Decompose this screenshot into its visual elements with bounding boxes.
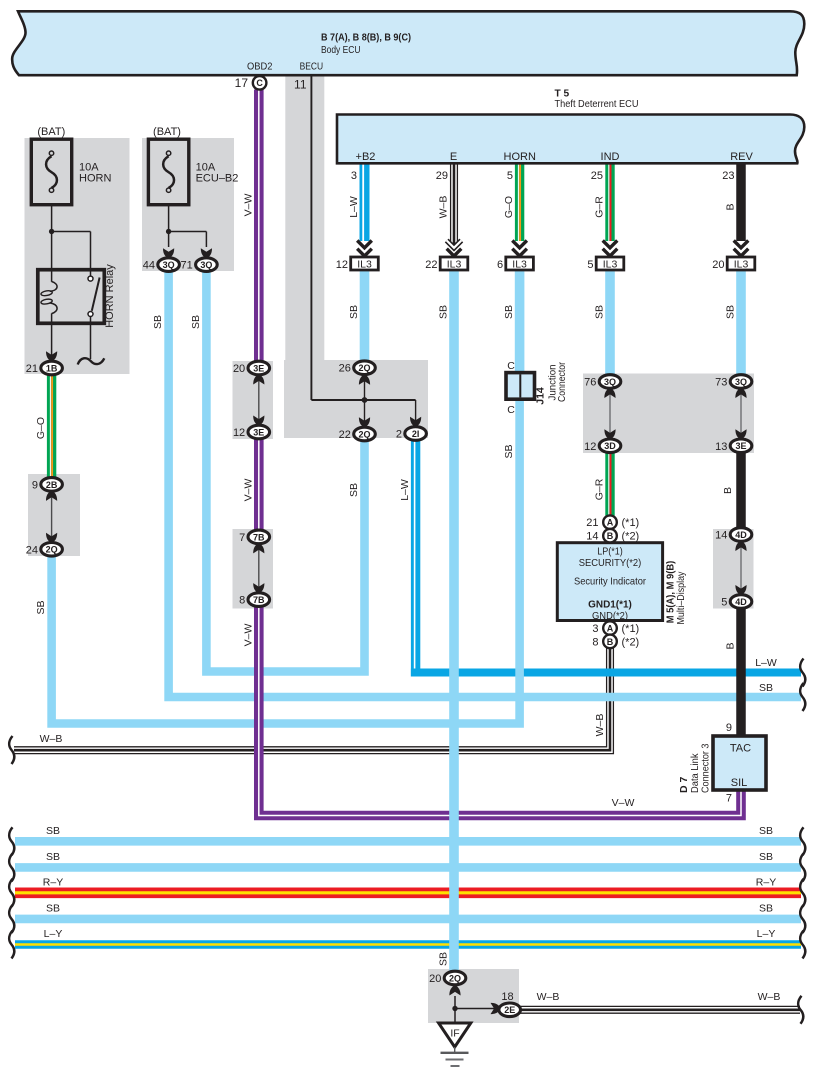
svg-text:Security Indicator: Security Indicator: [574, 576, 646, 588]
svg-text:HORN Relay: HORN Relay: [104, 264, 116, 328]
svg-text:IL3: IL3: [512, 259, 527, 271]
wire G-O relay 1B to 2B: [50, 375, 52, 479]
wire G-R 12-3D to indicator A: [609, 452, 611, 516]
security indicator box: [557, 543, 662, 621]
connector 22 2Q: [354, 427, 376, 441]
shade box ECU-B2 fuse: [142, 138, 234, 271]
arrow into 71-3Q: [201, 248, 212, 259]
link pair 3Q/3D: [609, 390, 611, 438]
svg-text:22: 22: [425, 259, 437, 271]
svg-text:(*1): (*1): [622, 623, 640, 635]
svg-text:SB: SB: [46, 851, 60, 863]
wire L-W horizontal to right edge: [411, 441, 420, 677]
svg-text:2B: 2B: [46, 480, 58, 490]
svg-text:SB: SB: [503, 305, 515, 319]
svg-text:2I: 2I: [412, 429, 420, 439]
svg-text:2Q: 2Q: [46, 545, 58, 555]
svg-text:(BAT): (BAT): [37, 126, 65, 138]
svg-text:44: 44: [143, 260, 155, 272]
svg-text:D 7: D 7: [678, 777, 690, 794]
svg-text:L–W: L–W: [348, 196, 360, 218]
svg-text:B: B: [607, 531, 614, 541]
link pair 7B/7B: [258, 545, 260, 592]
svg-text:7B: 7B: [253, 532, 265, 542]
svg-text:7: 7: [239, 532, 245, 544]
svg-text:29: 29: [436, 170, 448, 182]
svg-text:W–B: W–B: [438, 196, 450, 219]
wire ECU-B2 fuse split to 44/71: [166, 204, 206, 247]
svg-text:24: 24: [26, 544, 38, 556]
svg-text:2Q: 2Q: [449, 973, 461, 983]
svg-text:9: 9: [32, 479, 38, 491]
svg-text:3E: 3E: [253, 427, 264, 437]
svg-text:(*2): (*2): [622, 531, 640, 543]
svg-text:HORN: HORN: [504, 151, 536, 163]
svg-text:14: 14: [586, 531, 598, 543]
squiggle right W-B bottom: [798, 996, 803, 1024]
connector C OBD2: [253, 76, 267, 90]
connector 26 2Q: [354, 361, 376, 375]
shade box connector pair 4D: [713, 529, 754, 609]
svg-text:LP(*1): LP(*1): [597, 546, 623, 558]
squiggle right bus 3: [800, 879, 805, 907]
link pair 2B/2Q: [51, 492, 53, 541]
connector A 3 (*1): [603, 621, 617, 635]
svg-text:L–W: L–W: [399, 479, 411, 501]
svg-text:Connector 3: Connector 3: [699, 743, 711, 793]
svg-text:IL3: IL3: [603, 259, 618, 271]
wire B black 5-4D to TAC: [736, 608, 746, 737]
connector B 8 (*2): [603, 635, 617, 649]
svg-text:IND: IND: [601, 151, 620, 163]
svg-text:L–W: L–W: [755, 657, 777, 669]
svg-text:SB: SB: [503, 444, 515, 458]
svg-text:5: 5: [721, 597, 727, 609]
bus wire SB 2: [15, 863, 801, 872]
svg-text:3: 3: [351, 170, 357, 182]
svg-text:A: A: [607, 624, 614, 634]
wire SB below 12-IL3: [360, 268, 370, 362]
fuse 10A HORN: [31, 139, 71, 205]
link pair 3Q/3E right: [740, 390, 742, 438]
wire SB U-link 71-3Q to 22-2Q: [206, 270, 364, 672]
squiggle right bus 5: [800, 931, 805, 959]
svg-text:73: 73: [715, 377, 727, 389]
wire SB E column full drop: [449, 268, 459, 973]
svg-text:(BAT): (BAT): [153, 126, 181, 138]
svg-text:20: 20: [429, 973, 441, 985]
svg-text:3D: 3D: [604, 441, 616, 451]
Theft Deterrent ECU banner: [337, 115, 804, 164]
svg-text:SB: SB: [35, 600, 47, 614]
wire SB REV column: [736, 268, 746, 376]
connector A 21 (*1): [603, 515, 617, 529]
connector 12 3D: [599, 439, 621, 453]
shade box connector pair 2B/2Q: [28, 474, 80, 556]
wire B black 13-3E to 14-4D: [736, 449, 746, 529]
connector 20 3E: [248, 361, 270, 375]
fuse 10A ECU-B2: [148, 139, 188, 205]
shade box connector pair 3E: [233, 361, 274, 439]
svg-text:12: 12: [336, 259, 348, 271]
wire relay out to 21-1B: [51, 323, 53, 355]
connector 9 2B: [41, 478, 63, 492]
svg-text:GND(*2): GND(*2): [592, 610, 628, 622]
wire HORN fuse to relay: [49, 205, 91, 282]
svg-text:TAC: TAC: [730, 743, 751, 755]
svg-text:3: 3: [592, 623, 598, 635]
wire SB from 44-3Q to right edge: [169, 270, 801, 697]
svg-text:V–W: V–W: [242, 624, 254, 647]
connector IL3 pin 22: [425, 257, 468, 271]
wire W-B from E: [451, 164, 458, 247]
svg-text:B: B: [725, 642, 737, 649]
connector 13 3E: [730, 439, 752, 453]
connector IL3 pin 5: [587, 257, 623, 271]
squiggle left bus 4: [9, 905, 14, 933]
svg-text:SB: SB: [759, 851, 773, 863]
bus wire SB 3: [15, 915, 801, 924]
svg-text:C: C: [507, 404, 515, 416]
svg-text:SIL: SIL: [731, 777, 748, 789]
svg-text:2Q: 2Q: [358, 363, 370, 373]
svg-text:SB: SB: [348, 305, 360, 319]
connector 24 2Q: [41, 543, 63, 557]
svg-text:5: 5: [507, 170, 513, 182]
shade box ground 2Q/2E: [428, 969, 519, 1023]
svg-text:W–B: W–B: [594, 714, 606, 737]
connector IL3 pin 20: [712, 257, 755, 271]
svg-text:SB: SB: [152, 315, 164, 329]
connector 7 7B: [248, 530, 270, 544]
svg-text:IL3: IL3: [734, 259, 749, 271]
connector 5 4D: [730, 595, 752, 609]
svg-text:SB: SB: [46, 902, 60, 914]
svg-text:SB: SB: [725, 305, 737, 319]
arrow right into 2E: [491, 1003, 502, 1014]
connector 20 2Q ground: [444, 971, 466, 985]
svg-text:J14: J14: [535, 387, 547, 405]
wire SB IND column: [605, 268, 615, 376]
svg-text:B: B: [725, 203, 737, 210]
svg-text:(*2): (*2): [622, 636, 640, 648]
svg-text:B 7(A), B 8(B), B 9(C): B 7(A), B 8(B), B 9(C): [321, 32, 411, 44]
link pair 3E/3E: [258, 376, 260, 424]
svg-text:SB: SB: [594, 305, 606, 319]
svg-text:W–B: W–B: [40, 733, 63, 745]
svg-text:SB: SB: [759, 825, 773, 837]
svg-text:2E: 2E: [504, 1005, 515, 1015]
svg-text:Connector: Connector: [556, 362, 568, 402]
connector 2 2I: [405, 427, 427, 441]
svg-text:22: 22: [339, 429, 351, 441]
connector 12 3E: [248, 425, 270, 439]
squiggle left bus 3: [9, 879, 14, 907]
svg-text:4D: 4D: [735, 597, 747, 607]
svg-text:3Q: 3Q: [735, 377, 747, 387]
arrow up into 20-2Q: [449, 985, 460, 996]
squiggle right SB: [800, 683, 805, 711]
wire B from REV: [736, 164, 746, 242]
svg-text:2Q: 2Q: [358, 429, 370, 439]
wire G-R from IND: [609, 164, 611, 242]
squiggle left bus 2: [9, 853, 14, 881]
tilde continuation symbol: [78, 358, 105, 364]
svg-text:W–B: W–B: [537, 991, 560, 1003]
wire L-W from +B2: [363, 164, 364, 242]
svg-text:V–W: V–W: [242, 479, 254, 502]
svg-text:V–W: V–W: [612, 797, 635, 809]
bus wire SB 1: [15, 837, 801, 846]
shade box connector pairs 3Q/3D and 3Q/3E: [583, 374, 754, 454]
connector 71 3Q: [196, 258, 218, 272]
svg-text:11: 11: [294, 78, 307, 92]
svg-text:3Q: 3Q: [163, 260, 175, 270]
svg-text:21: 21: [26, 363, 38, 375]
squiggle right L-W: [800, 659, 805, 687]
arrow into 44-3Q: [163, 248, 174, 259]
svg-text:R–Y: R–Y: [756, 876, 776, 888]
svg-text:3Q: 3Q: [200, 260, 212, 270]
shade box HORN fuse + relay: [25, 138, 130, 374]
svg-text:6: 6: [497, 259, 503, 271]
connector 44 3Q: [158, 258, 180, 272]
svg-text:Body ECU: Body ECU: [321, 44, 361, 56]
wire V-W vertical OBD2 segment A: [254, 90, 264, 362]
svg-text:A: A: [607, 518, 614, 528]
svg-text:18: 18: [501, 991, 513, 1003]
svg-text:B: B: [607, 637, 614, 647]
svg-text:26: 26: [339, 363, 351, 375]
connector 14 4D: [730, 528, 752, 542]
svg-text:1B: 1B: [46, 363, 58, 373]
svg-text:ECU–B2: ECU–B2: [196, 173, 239, 185]
svg-text:20: 20: [712, 259, 724, 271]
HORN relay coil and contacts: [38, 270, 105, 324]
svg-text:8: 8: [239, 595, 245, 607]
svg-text:L–Y: L–Y: [757, 928, 776, 940]
svg-text:17: 17: [235, 76, 249, 90]
squiggle left bus 1: [9, 827, 14, 855]
connector 73 3Q: [730, 375, 752, 389]
svg-text:E: E: [450, 151, 457, 163]
svg-text:IF: IF: [450, 1028, 459, 1040]
squiggle right bus 4: [800, 905, 805, 933]
svg-text:SB: SB: [438, 952, 450, 966]
svg-text:C: C: [256, 78, 263, 88]
connector 18 2E: [499, 1003, 521, 1017]
svg-text:GND1(*1): GND1(*1): [588, 599, 632, 611]
squiggle right bus 2: [800, 853, 805, 881]
svg-text:V–W: V–W: [242, 194, 254, 217]
wire V-W vertical segment B: [254, 439, 264, 531]
svg-text:23: 23: [722, 170, 734, 182]
bus wire L-Y: [15, 940, 801, 948]
connector IL3 pin 6: [497, 257, 533, 271]
arrow into 12-IL3: [357, 241, 372, 248]
svg-text:B: B: [722, 487, 734, 494]
svg-text:9: 9: [726, 722, 732, 734]
wire W-B bottom to right edge: [519, 1006, 800, 1013]
svg-text:Multi–Display: Multi–Display: [675, 571, 687, 625]
svg-text:R–Y: R–Y: [43, 876, 63, 888]
svg-text:3E: 3E: [735, 441, 746, 451]
svg-text:7B: 7B: [253, 595, 265, 605]
svg-text:7: 7: [726, 793, 732, 805]
data link connector 3 box TAC/SIL: [713, 736, 766, 790]
arrow into 22-IL3 (outlined): [447, 241, 462, 248]
svg-text:20: 20: [233, 363, 245, 375]
wire relay out to horn (tilde): [90, 317, 92, 359]
svg-text:71: 71: [181, 260, 193, 272]
wire G-O from HORN: [518, 164, 520, 242]
junction connector J14: [506, 373, 535, 400]
wire SB horn run 6-IL3 to 24-2Q: [52, 398, 520, 724]
svg-text:W–B: W–B: [758, 991, 781, 1003]
svg-text:SB: SB: [759, 682, 773, 694]
connector 21 1B: [41, 361, 63, 375]
svg-text:2: 2: [396, 429, 402, 441]
svg-text:SB: SB: [348, 483, 360, 497]
svg-text:G–R: G–R: [594, 196, 606, 218]
svg-text:76: 76: [584, 377, 596, 389]
svg-text:3Q: 3Q: [604, 377, 616, 387]
arrow into 6-IL3: [512, 241, 527, 248]
svg-text:G–R: G–R: [594, 478, 606, 500]
svg-text:4D: 4D: [735, 530, 747, 540]
svg-text:HORN: HORN: [79, 173, 111, 185]
svg-text:SB: SB: [46, 825, 60, 837]
svg-text:SECURITY(*2): SECURITY(*2): [579, 557, 642, 569]
svg-text:L–Y: L–Y: [44, 928, 63, 940]
squiggle right bus 1: [800, 827, 805, 855]
svg-text:8: 8: [592, 636, 598, 648]
arrow down into 2-2I: [410, 417, 421, 428]
svg-text:G–O: G–O: [503, 196, 515, 218]
wire SB HORN column to J14: [515, 268, 525, 374]
svg-text:SB: SB: [190, 315, 202, 329]
ground circuit under 20-2Q: [452, 996, 497, 1022]
svg-text:12: 12: [584, 441, 596, 453]
arrow into 20-IL3: [734, 241, 749, 248]
shade box connector pair 7B: [233, 529, 274, 609]
svg-text:IL3: IL3: [447, 259, 462, 271]
bus wire R-Y: [15, 887, 801, 898]
svg-text:SB: SB: [438, 305, 450, 319]
link pair 4D/4D: [740, 543, 742, 594]
connector 8 7B: [248, 593, 270, 607]
svg-text:12: 12: [233, 427, 245, 439]
wire V-W segment C down and across to SIL: [259, 606, 741, 816]
svg-text:(*1): (*1): [622, 517, 640, 529]
connector B 14 (*2): [603, 529, 617, 543]
svg-text:SB: SB: [759, 902, 773, 914]
shade strip BECU trace: [285, 76, 324, 362]
svg-text:14: 14: [715, 530, 727, 542]
connector IL3 pin 12: [336, 257, 379, 271]
Body ECU banner: [12, 11, 804, 75]
svg-text:3E: 3E: [253, 363, 264, 373]
svg-text:G–O: G–O: [35, 417, 47, 439]
svg-text:OBD2: OBD2: [247, 61, 273, 73]
wire BECU thin black with junction: [311, 76, 415, 421]
svg-text:5: 5: [587, 259, 593, 271]
white stripe of L-W wire: [414, 441, 416, 669]
svg-text:C: C: [507, 360, 515, 372]
ground symbol IF: [439, 1023, 471, 1066]
svg-text:21: 21: [586, 517, 598, 529]
svg-text:IL3: IL3: [357, 259, 372, 271]
svg-text:REV: REV: [730, 151, 753, 163]
shade box BECU junction 2Q/2I: [284, 360, 428, 438]
connector 76 3Q: [599, 375, 621, 389]
svg-text:BECU: BECU: [300, 61, 324, 73]
squiggle left W-B: [9, 736, 14, 764]
wire W-B from security indicator B to ground bus: [14, 646, 613, 754]
svg-text:Theft Deterrent ECU: Theft Deterrent ECU: [555, 98, 639, 110]
svg-text:13: 13: [715, 441, 727, 453]
svg-text:25: 25: [591, 170, 603, 182]
svg-text:+B2: +B2: [356, 151, 376, 163]
arrow into 5-IL3: [603, 241, 618, 248]
squiggle left bus 5: [9, 931, 14, 959]
arrow down into 22-2Q: [359, 417, 370, 428]
arrow up into 26-2Q: [359, 374, 370, 385]
